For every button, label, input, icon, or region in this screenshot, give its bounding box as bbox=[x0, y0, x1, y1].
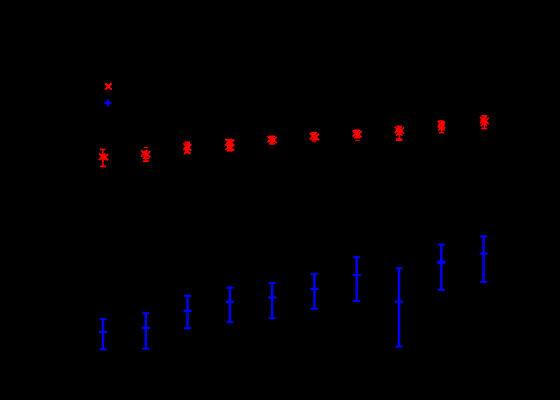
legend blue + marker bbox=[104, 99, 111, 106]
blue errorbar B4 bbox=[226, 287, 234, 324]
blue errorbar B10 bbox=[480, 235, 488, 283]
red errorbar cluster R1 bbox=[99, 149, 108, 168]
legend red x marker bbox=[105, 83, 111, 89]
red errorbar cluster R2 bbox=[141, 147, 150, 162]
blue errorbar B7 bbox=[353, 256, 361, 302]
blue errorbar B8 bbox=[395, 267, 403, 347]
red errorbar cluster R3 bbox=[183, 141, 191, 154]
red errorbar cluster R7 bbox=[353, 129, 362, 141]
blue errorbar B5 bbox=[268, 282, 276, 319]
blue errorbar B2 bbox=[142, 312, 150, 350]
red errorbar cluster R9 bbox=[438, 120, 445, 133]
blue errorbar B3 bbox=[184, 295, 192, 330]
red errorbar cluster R4 bbox=[225, 139, 234, 152]
red errorbar cluster R8 bbox=[395, 126, 404, 141]
red errorbar cluster R5 bbox=[268, 136, 277, 145]
blue errorbar B1 bbox=[99, 318, 107, 350]
blue errorbar B6 bbox=[310, 273, 318, 310]
red errorbar cluster R10 bbox=[480, 115, 489, 129]
red errorbar cluster R6 bbox=[310, 132, 319, 142]
blue errorbar B9 bbox=[437, 244, 445, 291]
